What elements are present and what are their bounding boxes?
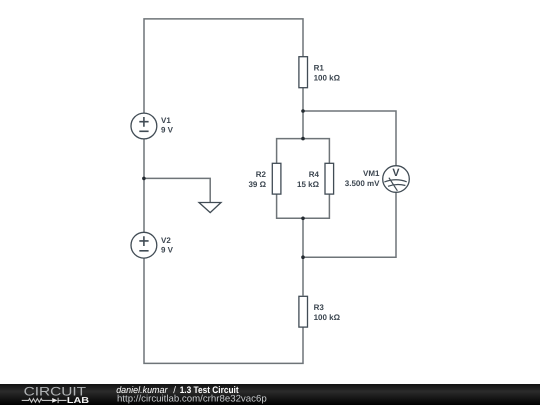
svg-text:100 kΩ: 100 kΩ [314, 74, 341, 83]
svg-text:9 V: 9 V [161, 245, 174, 254]
svg-text:100 kΩ: 100 kΩ [314, 313, 341, 322]
svg-text:VM1: VM1 [363, 169, 380, 178]
svg-text:R4: R4 [309, 170, 320, 179]
svg-text:R2: R2 [256, 170, 267, 179]
svg-text:V2: V2 [161, 236, 171, 245]
svg-text:39 Ω: 39 Ω [248, 180, 266, 189]
svg-text:15 kΩ: 15 kΩ [297, 180, 320, 189]
svg-text:9 V: 9 V [161, 125, 174, 134]
svg-text:http://circuitlab.com/crhr8e32: http://circuitlab.com/crhr8e32vac6p [117, 393, 267, 404]
svg-text:3.500 mV: 3.500 mV [345, 179, 380, 188]
svg-text:LAB: LAB [67, 395, 89, 405]
svg-text:V: V [392, 167, 400, 179]
svg-text:R1: R1 [314, 64, 325, 73]
svg-text:R3: R3 [314, 303, 325, 312]
svg-text:V1: V1 [161, 116, 171, 125]
